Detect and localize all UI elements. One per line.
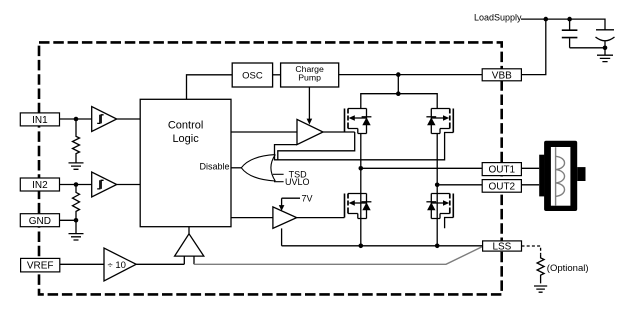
motor winding coil: [556, 147, 565, 205]
wire: VBB pin to load supply: [521, 19, 545, 75]
wire: load supply line: [521, 19, 605, 30]
node: VBB rail junction: [396, 72, 401, 77]
pin box VBB: [482, 69, 521, 81]
op-amp top gate driver: [297, 119, 323, 144]
svg-text:OSC: OSC: [242, 71, 263, 82]
wire: OUT1 to load: [521, 167, 539, 169]
wire: TSD input stub: [273, 173, 284, 175]
svg-text:IN1: IN1: [32, 115, 48, 126]
transistor Q2 (high-side right, with body diode): [426, 109, 453, 134]
svg-text:OUT1: OUT1: [488, 165, 515, 176]
OSC block: [232, 63, 272, 87]
wire: bottom driver return to LSS rail: [281, 228, 283, 245]
svg-text:IN2: IN2: [32, 180, 48, 191]
ground (optional resistor): [534, 286, 547, 292]
node: load supply junction 1: [544, 17, 549, 22]
wire: Q4 gate lead: [445, 218, 454, 229]
pin box LSS: [483, 241, 522, 251]
motor load right tab: [577, 167, 585, 181]
wire: OSC to Charge Pump: [273, 74, 281, 76]
wire: bottom driver output to Q3 gate: [297, 217, 345, 219]
schmitt buffer U2: [92, 172, 117, 197]
pin box VREF: [21, 258, 60, 272]
transistor Q3 (low-side left, with body diode): [345, 194, 372, 219]
wire: control logic top to OSC: [187, 75, 233, 100]
svg-text:LSS: LSS: [492, 242, 511, 253]
control logic block: [140, 99, 231, 226]
svg-text:GND: GND: [29, 216, 51, 227]
wire: Q1 gate branch to bus: [278, 132, 355, 160]
wire: OUT2 rail: [437, 184, 482, 186]
pin box IN2: [20, 178, 59, 191]
dashed IC boundary: [39, 42, 502, 294]
wire: Charge Pump to VBB rail: [339, 74, 483, 76]
node: LSS junction left: [359, 244, 364, 249]
label 7V supply with arrow: [282, 198, 300, 206]
wire: top gate bus wrap to Q2 gate: [275, 133, 454, 160]
svg-text:UVLO: UVLO: [285, 177, 310, 187]
svg-text:÷ 10: ÷ 10: [108, 260, 126, 271]
op-amp bottom gate driver: [273, 207, 297, 229]
wire: divider output to comparator: [136, 263, 184, 265]
wire: buffer2 to control logic: [117, 184, 141, 186]
wire: OUT2 to load: [521, 184, 539, 186]
node: IN1 junction: [74, 117, 79, 122]
pin box GND: [20, 214, 59, 227]
svg-text:7V: 7V: [302, 193, 313, 203]
node: LSS junction right: [435, 244, 440, 249]
ground (load supply): [597, 48, 613, 62]
wire: control logic to bottom driver: [231, 217, 273, 219]
svg-text:(Optional): (Optional): [547, 263, 589, 274]
motor load body: [544, 141, 577, 211]
wire: top driver output to Q1 gate: [323, 131, 355, 133]
resistor R3 (Optional sense): [537, 255, 544, 284]
wire: capacitor bottom link: [570, 47, 605, 49]
comparator stub into control logic: [188, 227, 190, 234]
node: GND junction: [74, 218, 79, 223]
node: drain rail junction: [396, 91, 401, 96]
OR gate (TSD/UVLO fault): [241, 155, 275, 181]
svg-text:Pump: Pump: [298, 73, 321, 83]
wire: LSS rail: [282, 245, 483, 247]
motor load left tab: [539, 155, 544, 197]
wire: VREF to divider: [60, 263, 104, 265]
charge pump block: [281, 63, 339, 87]
node: OUT2 junction: [435, 183, 440, 188]
wire: comparator input stubs: [184, 256, 194, 264]
wire: GND pin to node: [60, 219, 77, 221]
wire: UVLO input stub: [274, 181, 284, 183]
svg-text:VREF: VREF: [27, 261, 54, 272]
wire: buffer to control logic: [117, 118, 141, 120]
wire: right bridge column: [436, 134, 438, 246]
ground (GND pin): [69, 220, 84, 240]
transistor Q4 (low-side right, with body diode): [426, 194, 453, 219]
pin box OUT1: [482, 163, 521, 176]
resistor R2 (IN2 pulldown): [73, 185, 80, 221]
wire: left bridge column: [360, 134, 362, 246]
wire: OUT1 rail: [361, 167, 482, 169]
wire: Disable to OR gate: [231, 167, 241, 169]
charge pump arrow to top driver: [308, 87, 310, 120]
ground (IN1): [69, 163, 84, 169]
node: OUT1 junction: [359, 166, 364, 171]
svg-text:Control: Control: [168, 120, 203, 132]
pin box IN1: [20, 113, 59, 126]
transistor Q1 (high-side left, with body diode): [345, 109, 372, 134]
wire: LSS to optional resistor (dashed): [522, 246, 541, 255]
node: load supply junction 2: [567, 17, 572, 22]
svg-text:VBB: VBB: [492, 70, 512, 81]
svg-text:Disable: Disable: [199, 162, 229, 172]
comparator (current sense): [175, 234, 204, 256]
capacitor C1: [569, 19, 571, 48]
schmitt buffer U1: [92, 107, 117, 132]
wire: VBB rail drop to drain rail: [397, 75, 399, 94]
node: C2 ground junction: [603, 46, 608, 51]
wire: IN2 to buffer: [60, 184, 92, 186]
capacitor C2 (polarized): [596, 30, 615, 48]
wire: high-side drain rail: [361, 94, 437, 109]
resistor R1 (IN1 pulldown): [73, 119, 80, 163]
wire: LSS sense feedback (grey): [194, 247, 483, 265]
wire: control logic to top driver: [231, 131, 297, 133]
svg-text:Logic: Logic: [172, 133, 199, 145]
pin box OUT2: [482, 180, 521, 193]
node: IN2 junction: [74, 182, 79, 187]
wire: IN1 to buffer: [60, 118, 92, 120]
svg-text:OUT2: OUT2: [488, 182, 515, 193]
op-amp divide-by-10: [104, 248, 136, 281]
svg-text:LoadSupply: LoadSupply: [474, 13, 522, 23]
